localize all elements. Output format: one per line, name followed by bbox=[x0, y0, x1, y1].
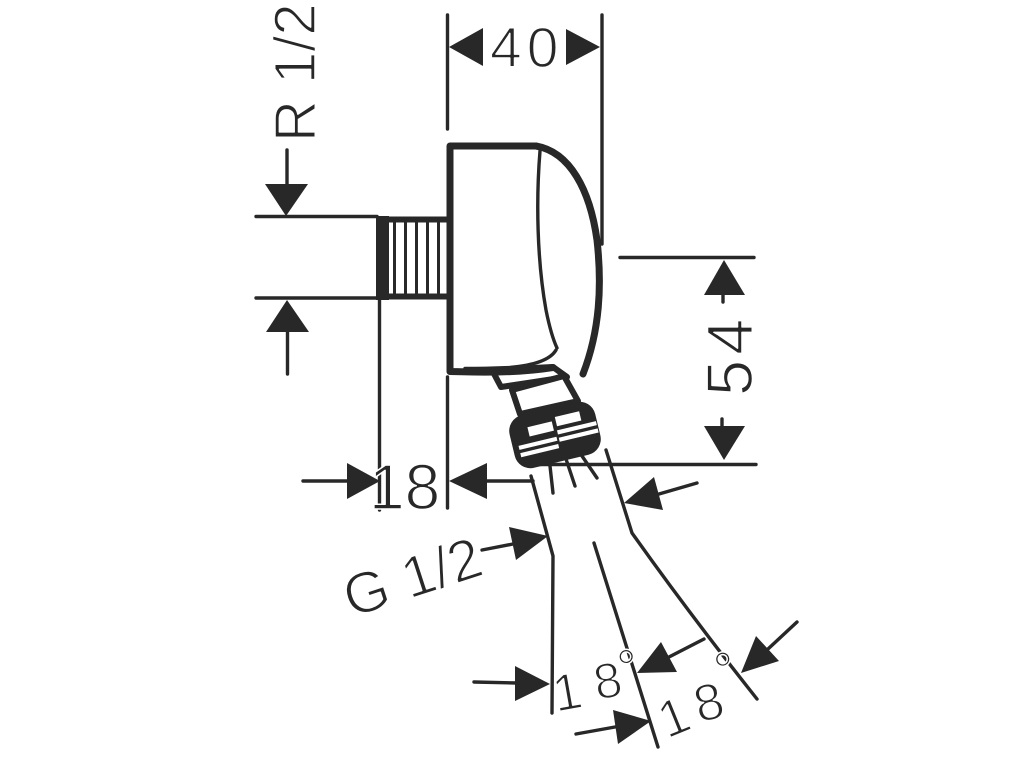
svg-text:18: 18 bbox=[369, 451, 440, 523]
svg-text:40: 40 bbox=[490, 16, 563, 80]
svg-text:54: 54 bbox=[693, 314, 766, 396]
svg-text:R 1/2: R 1/2 bbox=[263, 3, 328, 142]
